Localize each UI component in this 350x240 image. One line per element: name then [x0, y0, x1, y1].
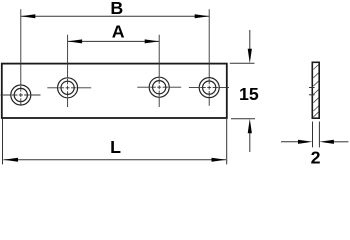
extension line L right — [226, 119, 228, 164]
svg-text:L: L — [110, 137, 121, 157]
hole 3 inner circle — [153, 81, 166, 94]
side view plate outline — [312, 62, 319, 118]
plate outline (front view) — [2, 64, 227, 118]
hole 3 horizontal centerline — [137, 86, 181, 88]
side view hole centerline tick lower — [309, 94, 315, 96]
side view hatching — [313, 65, 318, 117]
dimension 15 bottom arrow — [248, 119, 252, 134]
extension line A left / hole 2 vertical centerline — [67, 35, 69, 107]
dimension 15 top arrow — [248, 49, 252, 64]
hole 1 outer circle — [11, 85, 31, 105]
dimension line L — [4, 159, 227, 161]
hole 4 inner circle — [203, 81, 216, 94]
dimension L left arrow — [4, 158, 19, 162]
extension line L left — [2, 119, 4, 164]
extension line 2 left — [312, 122, 314, 148]
dimension 2 left line — [281, 141, 299, 143]
dimension line B — [21, 15, 209, 17]
extension line B left / hole 1 vertical centerline — [20, 9, 22, 105]
dimension 2 right line — [333, 141, 348, 143]
hole 3 outer circle — [149, 77, 169, 97]
dimension 2 right arrow — [319, 140, 334, 144]
hole 2 outer circle — [58, 78, 78, 98]
svg-text:2: 2 — [311, 147, 321, 166]
hole 2 inner circle — [61, 81, 74, 94]
extension line B right / hole 4 vertical centerline — [208, 9, 210, 105]
hole 2 horizontal centerline — [47, 87, 91, 89]
hole 1 horizontal centerline — [1, 94, 41, 96]
dimension 15 bottom arrow shaft — [249, 132, 251, 152]
dimension A left arrow — [68, 39, 83, 43]
dimension 2 left arrow — [298, 140, 313, 144]
dimension L right arrow — [212, 158, 227, 162]
side view hole centerline tick upper — [309, 87, 315, 89]
extension line 15 bottom — [231, 118, 255, 120]
hole 1 inner circle — [14, 88, 27, 101]
dimension 15 top arrow shaft — [249, 30, 251, 50]
svg-text:A: A — [112, 21, 125, 41]
extension line 15 top — [230, 62, 255, 64]
hole 4 outer circle — [199, 78, 219, 98]
hole 4 horizontal centerline — [189, 87, 229, 89]
dimension B left arrow — [21, 14, 36, 18]
extension line 2 right — [318, 122, 320, 148]
svg-text:B: B — [110, 0, 123, 18]
svg-text:15: 15 — [239, 84, 259, 104]
dimension B right arrow — [195, 14, 210, 18]
extension line A right / hole 3 vertical centerline — [158, 35, 160, 107]
dimension A right arrow — [145, 39, 160, 43]
dimension line A — [68, 40, 159, 42]
